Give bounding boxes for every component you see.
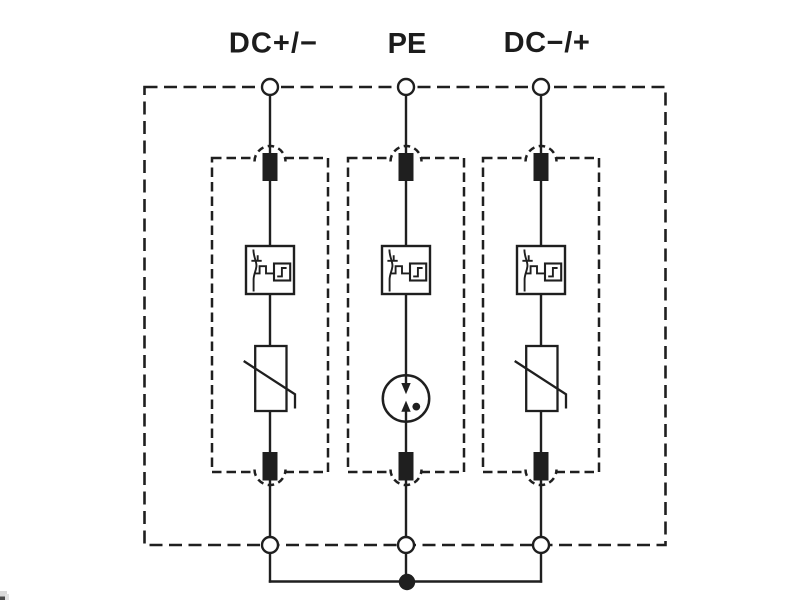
- outer device enclosure (dashed): [145, 87, 666, 545]
- terminal right (bottom): [533, 537, 549, 553]
- wire varistor to bottom contact module 1: [269, 411, 271, 453]
- plug socket arc bottom module 3 (dashed): [526, 470, 557, 485]
- wire DC-/+ terminal to plug contact: [540, 95, 542, 157]
- wire varistor to bottom contact module 3: [540, 411, 542, 453]
- terminal DC+/- (top): [262, 79, 278, 95]
- wire: middle terminal down to PE junction: [405, 553, 407, 582]
- wire contact to disconnect device module 3: [540, 181, 542, 247]
- plug contact bottom module 1: [263, 452, 278, 481]
- plug-in protection module 1 (dashed outline): [212, 155, 328, 475]
- varistor module 3: [515, 346, 566, 411]
- thermal disconnect device with status indicator, module 3: [517, 246, 565, 294]
- junction node (PE bus): [399, 574, 415, 590]
- terminal PE (top): [398, 79, 414, 95]
- terminal middle (bottom): [398, 537, 414, 553]
- thermal disconnect device with status indicator, module 1: [246, 246, 294, 294]
- wire bottom contact to bottom terminal module 1: [269, 480, 271, 537]
- wire disconnect device to varistor module 3: [540, 294, 542, 347]
- plug contact top module 1: [263, 153, 278, 181]
- varistor module 1: [244, 346, 295, 411]
- wire DC+/- terminal to plug contact: [269, 95, 271, 157]
- plug socket arc bottom module 2 (dashed): [391, 470, 422, 485]
- plug socket arc bottom module 1 (dashed): [255, 470, 286, 485]
- wire bottom contact to bottom terminal module 3: [540, 480, 542, 537]
- plug contact top module 3: [534, 153, 549, 181]
- svg-text:PE: PE: [388, 28, 427, 60]
- gas discharge tube (triggered spark gap), module 2: [383, 375, 429, 421]
- wire: right terminal down to PE bus: [540, 553, 542, 583]
- svg-text:DC+/−: DC+/−: [229, 28, 318, 60]
- plug-in protection module 3 (dashed outline): [483, 155, 599, 475]
- plug contact bottom module 3: [534, 452, 549, 481]
- plug contact bottom module 2: [399, 452, 414, 481]
- wire disconnect device to varistor module 1: [269, 294, 271, 347]
- wire disconnect device to spark gap module 2: [405, 294, 407, 385]
- terminal left (bottom): [262, 537, 278, 553]
- plug socket arc top module 1 (dashed): [255, 146, 286, 162]
- svg-text:DC−/+: DC−/+: [504, 27, 591, 59]
- wire contact to disconnect device module 1: [269, 181, 271, 247]
- wire: left terminal down to PE bus: [269, 553, 271, 583]
- plug-in protection module 2 (dashed outline): [348, 155, 464, 475]
- wire PE terminal to plug contact: [405, 95, 407, 157]
- plug contact top module 2: [399, 153, 414, 181]
- wire spark gap to bottom contact module 2: [405, 411, 407, 454]
- wire contact to disconnect device module 2: [405, 181, 407, 247]
- plug socket arc top module 2 (dashed): [391, 146, 422, 162]
- plug socket arc top module 3 (dashed): [526, 146, 557, 162]
- thermal disconnect device with status indicator, module 2: [382, 246, 430, 294]
- wire bottom contact to bottom terminal module 2: [405, 480, 407, 537]
- PE equipotential bus wire: [269, 580, 542, 582]
- scan artifact speck (bottom-left corner): [0, 591, 9, 600]
- terminal DC-/+ (top): [533, 79, 549, 95]
